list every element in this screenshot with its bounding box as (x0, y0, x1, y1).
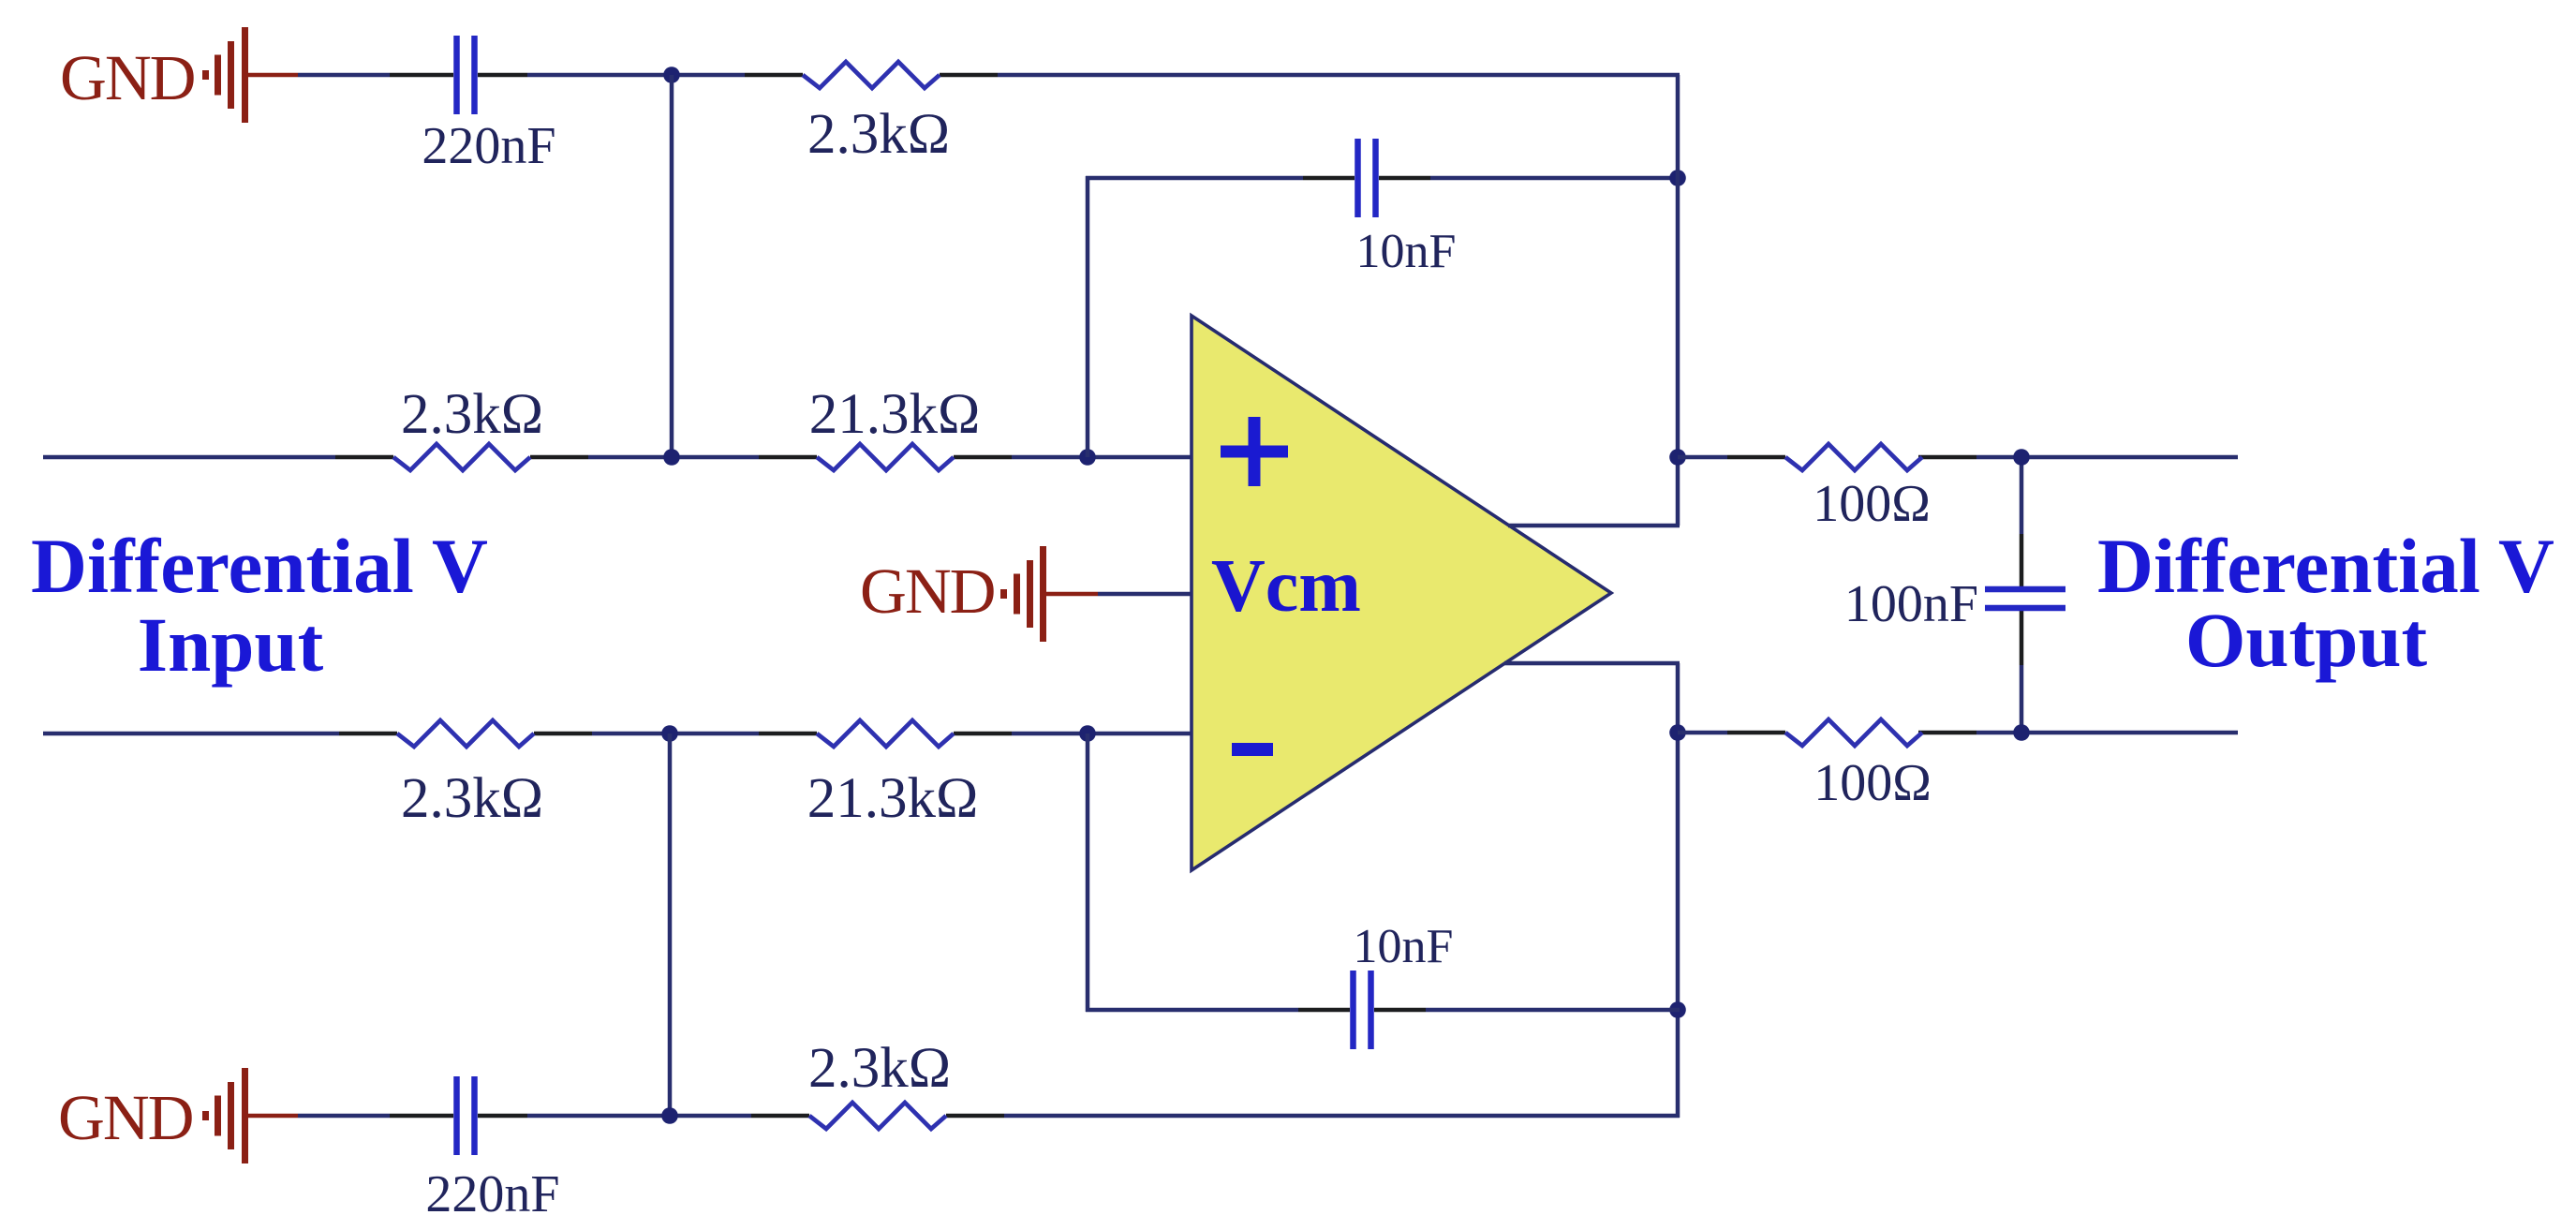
node junction dot A1 top (663, 67, 680, 83)
node junction dot A4 10nF top right (1669, 170, 1686, 186)
capacitor C3 100nF plates (1985, 589, 2065, 608)
svg-text:GND: GND (58, 1082, 193, 1153)
resistor R6 100 ohm top (1785, 444, 1922, 470)
svg-text:21.3kΩ: 21.3kΩ (809, 383, 981, 446)
ground GND1 top-left symbol (202, 27, 298, 123)
svg-text:Vcm: Vcm (1211, 545, 1361, 628)
op-amp U1 plus sign (1221, 417, 1288, 486)
resistor R2 2.3k plus input (393, 444, 530, 470)
svg-text:10nF: 10nF (1354, 920, 1454, 973)
node junction dot A6 minus line right (1079, 725, 1096, 742)
op-amp U1 triangle (1192, 316, 1611, 870)
wire output top black lead stubs (1727, 455, 1976, 460)
wire output top line navy (1678, 455, 2238, 460)
wire right rail bottom vertical (1676, 663, 1680, 1118)
wire right rail top vertical (1676, 75, 1680, 526)
svg-text:Input: Input (138, 601, 324, 688)
wire vertical V2 minus to bottom (668, 734, 673, 1116)
capacitor C5 220nF bottom plates (457, 1076, 475, 1155)
wire 10nF bottom black lead stubs (1298, 1008, 1426, 1013)
wire output bottom black lead stubs (1727, 731, 1976, 735)
svg-text:GND: GND (60, 42, 195, 113)
resistor R4 2.3k minus input (397, 720, 534, 747)
wire 10nF bottom loop horizontal navy (1086, 1008, 1680, 1013)
wire output bottom line navy (1678, 731, 2238, 735)
wire bottom feedback line navy (298, 1114, 1680, 1119)
wire plus input black lead stubs (335, 455, 1012, 460)
node junction dot A10 output node top (2013, 449, 2030, 466)
svg-text:GND: GND (860, 556, 995, 627)
node junction dot A12 bottom (661, 1107, 678, 1124)
node junction dot A9 10nF bottom right (1669, 1001, 1686, 1018)
svg-text:2.3kΩ: 2.3kΩ (808, 1037, 951, 1100)
wire 10nF top loop left vertical (1086, 176, 1090, 457)
svg-text:100nF: 100nF (1844, 575, 1978, 633)
wire output top stub from op-amp (1508, 524, 1680, 528)
wire bottom feedback black lead stubs (390, 1114, 1004, 1119)
svg-text:220nF: 220nF (425, 1165, 559, 1223)
wire vertical V1 (670, 75, 674, 457)
svg-text:Output: Output (2185, 597, 2428, 683)
op-amp U1 minus sign (1232, 743, 1273, 756)
wire 10nF top loop horizontal navy (1086, 176, 1680, 181)
svg-text:2.3kΩ: 2.3kΩ (401, 767, 543, 830)
wire plus input line navy (43, 455, 1192, 460)
resistor R7 100 ohm bottom (1785, 719, 1922, 746)
wire top feedback black lead stubs (390, 73, 998, 78)
ground GND3 bottom-left symbol (202, 1068, 298, 1163)
svg-text:220nF: 220nF (422, 117, 555, 175)
wire 10nF top black lead stubs (1303, 176, 1430, 181)
node junction dot A5 minus line left (661, 725, 678, 742)
node junction dot A8 out bottom (1669, 724, 1686, 741)
capacitor C2 10nF top plates (1358, 139, 1376, 217)
wire top feedback line navy segments (298, 73, 1680, 78)
wire output bottom stub from op-amp (1504, 661, 1680, 666)
capacitor C4 10nF bottom plates (1354, 971, 1371, 1049)
node junction dot A3 plus line right (1079, 449, 1096, 466)
wire output node vertical navy (2020, 457, 2024, 733)
node junction dot A7 out top (1669, 449, 1686, 466)
wire minus input line navy (43, 732, 1192, 736)
resistor R1 2.3k top feedback (803, 62, 940, 88)
svg-text:100Ω: 100Ω (1814, 754, 1932, 812)
wire 10nF bottom loop left vertical (1086, 734, 1090, 1012)
wire minus input black lead stubs (339, 732, 1012, 736)
capacitor C1 220nF top plates (457, 36, 475, 114)
svg-text:21.3kΩ: 21.3kΩ (807, 767, 979, 830)
resistor R8 2.3k bottom feedback (809, 1103, 946, 1129)
node junction dot A11 output node bottom (2013, 724, 2030, 741)
svg-text:100Ω: 100Ω (1813, 475, 1931, 533)
wire output node vertical black lead stubs (2020, 534, 2024, 665)
svg-text:10nF: 10nF (1356, 225, 1457, 278)
svg-text:2.3kΩ: 2.3kΩ (401, 383, 543, 446)
resistor R5 21.3k minus input (817, 720, 954, 747)
svg-text:Differential V: Differential V (31, 523, 488, 609)
svg-text:2.3kΩ: 2.3kΩ (807, 103, 950, 166)
resistor R3 21.3k plus input (817, 444, 954, 470)
wire Vcm input (1098, 592, 1192, 597)
ground GND2 mid symbol (1000, 546, 1098, 642)
node junction dot A2 plus line left (663, 449, 680, 466)
